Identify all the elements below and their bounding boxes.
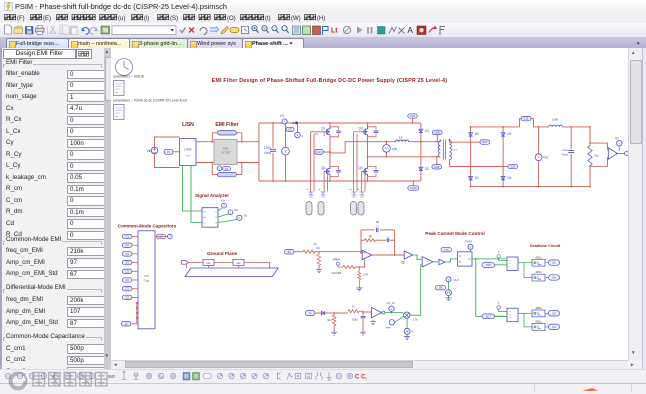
port VREF: [336, 262, 343, 267]
capsule CM3: [122, 252, 138, 256]
deadtime block 1: [495, 257, 519, 271]
capsule C8: [286, 127, 294, 131]
resistor Ro: [588, 126, 599, 188]
comparator CA: [363, 307, 385, 324]
wire summer out: [410, 265, 422, 316]
capsule CH3: [315, 149, 331, 154]
resistor Rref1: [343, 265, 365, 268]
svg-text:425u: 425u: [535, 255, 542, 259]
svg-text:Lm: Lm: [453, 148, 458, 152]
limiter U2: [402, 251, 413, 264]
wire rect bottom rail: [470, 186, 590, 188]
diode D6: [501, 167, 511, 187]
svg-text:D1: D1: [425, 129, 429, 133]
svg-text:CH7: CH7: [482, 140, 488, 144]
capsule CM bottom: [121, 322, 131, 326]
svg-text:/k: /k: [412, 330, 415, 334]
capsule CM2: [122, 243, 138, 247]
svg-text:Q4: Q4: [359, 166, 363, 170]
transistor Q4: [359, 166, 379, 176]
svg-text:Vbus: Vbus: [264, 151, 272, 155]
source sawtooth: [404, 318, 414, 339]
deadtime block 2: [507, 308, 518, 322]
svg-text:C14: C14: [510, 165, 515, 169]
svg-text:C16: C16: [524, 117, 529, 121]
svg-text:CA_LF: CA_LF: [387, 301, 396, 305]
svg-text:(E): (E): [43, 16, 51, 22]
svg-text:CH6: CH6: [434, 165, 440, 169]
capsule CM6: [122, 278, 138, 282]
svg-text:425u: 425u: [535, 320, 542, 324]
probe Vdc: [535, 126, 549, 188]
svg-text:VREF: VREF: [333, 258, 341, 262]
cm block bottom dots: [132, 302, 138, 324]
svg-text:Q2: Q2: [321, 166, 325, 170]
svg-text:CF: CF: [376, 220, 380, 224]
svg-text:+d: +d: [318, 189, 320, 191]
svg-text:cm: cm: [203, 212, 206, 214]
label Ground Plane: [207, 251, 238, 256]
svg-text:Cap: Cap: [144, 279, 150, 283]
svg-text:RF: RF: [369, 236, 373, 239]
svg-text:V: V: [448, 277, 450, 281]
capsule CM5: [122, 269, 138, 273]
buffer U4: [433, 259, 458, 265]
svg-text:425u: 425u: [535, 270, 542, 274]
gate drive symbol A1: [306, 189, 314, 197]
svg-text:R: R: [459, 260, 461, 264]
wire green LISN down 1: [183, 166, 203, 212]
capsule Cmp: [441, 247, 452, 252]
svg-text:C5: C5: [125, 269, 129, 273]
transistor Q3: [359, 127, 379, 137]
inductor Lout: [549, 118, 590, 127]
wire FF to lower deadtime: [476, 259, 506, 316]
svg-text:Ro: Ro: [595, 154, 599, 158]
svg-text:D4: D4: [475, 176, 479, 180]
svg-text:PA..: PA..: [115, 92, 120, 95]
node blue dot on top rail: [295, 122, 298, 125]
capsule CM8: [122, 295, 138, 299]
diode D1: [419, 123, 429, 142]
svg-text:910u: 910u: [352, 319, 358, 322]
wire D rail mid: [420, 141, 422, 166]
capacitor Cout: [562, 126, 575, 188]
wire leg B mid: [367, 137, 369, 167]
svg-text:In: In: [181, 141, 183, 143]
capsule clk: [435, 285, 446, 290]
svg-text:LISN: LISN: [182, 122, 194, 128]
parameter file label EMI.lst: [113, 75, 144, 79]
svg-text:CH3: CH3: [316, 150, 322, 154]
port arrow gnd: [182, 261, 204, 268]
svg-text:C: C: [355, 375, 360, 381]
svg-text:V: V: [470, 245, 472, 249]
svg-text:Vin: Vin: [147, 149, 152, 153]
parameter file icon 1: [114, 81, 125, 96]
svg-text:gd2: gd2: [237, 262, 242, 265]
wire LISN out top: [196, 141, 214, 143]
svg-text:Lt: Lt: [331, 28, 338, 35]
svg-text:gd1: gd1: [207, 262, 212, 265]
wire primary top: [421, 141, 440, 143]
wire leg A top: [329, 122, 331, 127]
svg-text:Common-Mode Capacitors: Common-Mode Capacitors: [118, 224, 177, 229]
svg-text:(W): (W): [291, 16, 301, 22]
wire EMI out bottom to bus: [237, 162, 259, 164]
capsule BOT: [482, 314, 507, 319]
svg-text:Ground Plane: Ground Plane: [207, 251, 238, 256]
svg-text:dm: dm: [203, 217, 206, 219]
svg-text:C7: C7: [125, 287, 129, 291]
svg-text:Vref=500: Vref=500: [332, 272, 342, 275]
wire secondary top: [450, 141, 472, 144]
parameter file icon 2: [114, 105, 125, 120]
svg-text:parameters – PSFB dc-dc (CISPR: parameters – PSFB dc-dc (CISPR-25 Level-…: [113, 99, 187, 103]
constant 1 upper: [497, 250, 507, 261]
wire green LISN down 2: [191, 166, 202, 223]
label 1.7k: [413, 318, 419, 322]
svg-text:Vdc: Vdc: [543, 156, 549, 160]
svg-text:Vo: Vo: [615, 137, 619, 141]
wire to compensator: [322, 251, 362, 253]
svg-text:1.7k: 1.7k: [413, 318, 419, 322]
label LISN: [182, 122, 194, 128]
source Vin: [147, 147, 158, 154]
wire bus top rail: [259, 122, 421, 124]
svg-text:CM: CM: [244, 215, 248, 218]
probe EMI: [218, 200, 226, 212]
resistor Ri: [334, 305, 363, 314]
svg-text:LISN: LISN: [184, 148, 192, 152]
svg-text:PA..: PA..: [115, 116, 120, 119]
diode D4: [469, 175, 479, 186]
label VREF: [332, 258, 342, 275]
delay 425u d: [524, 313, 560, 330]
wire Q3 gate down: [354, 132, 362, 192]
svg-text:A: A: [408, 26, 414, 35]
svg-text:C2: C2: [125, 243, 129, 247]
capsule cm right: [155, 234, 172, 239]
svg-text:V: V: [618, 141, 620, 145]
delay 425u b: [524, 263, 560, 281]
constant 1 lower: [497, 301, 507, 312]
op-amp U1: [362, 250, 372, 259]
svg-text:Peak Current Mode Control: Peak Current Mode Control: [425, 231, 484, 236]
svg-text:EMI Filter: EMI Filter: [215, 122, 238, 128]
svg-text:C3: C3: [125, 252, 129, 256]
gate source block QG4: [358, 202, 364, 216]
svg-text:A: A: [284, 120, 286, 124]
svg-text:TOP: TOP: [486, 263, 492, 267]
clock source: [446, 282, 452, 301]
probe Vo: [615, 137, 622, 151]
svg-text:Q4: Q4: [552, 276, 556, 280]
svg-text:2: 2: [365, 377, 367, 381]
svg-text:+d: +d: [349, 189, 351, 191]
svg-text:CISPR: CISPR: [185, 156, 192, 158]
wire sense bottom: [589, 157, 607, 167]
svg-text:Resr: Resr: [562, 153, 568, 157]
flip-flop block: [458, 252, 473, 266]
svg-text:+d: +d: [357, 189, 359, 191]
capsule above EMI filter: [218, 131, 237, 135]
svg-text:S: S: [459, 254, 461, 258]
delay 425u c: [518, 306, 560, 317]
capsule Vo out: [618, 151, 635, 155]
wire leg B bottom: [367, 176, 369, 182]
label Signal Analyzer: [195, 193, 229, 198]
wire EMI out top to bus: [237, 141, 259, 143]
svg-text:D5: D5: [507, 132, 511, 136]
wire top capsule loop: [211, 133, 242, 143]
resistor Rref2: [356, 266, 369, 291]
svg-text:BOT: BOT: [486, 314, 492, 318]
comparator U3: [413, 255, 433, 267]
label Peak Current Mode Control: [425, 231, 484, 236]
svg-text:CM: CM: [144, 274, 149, 278]
svg-text:EMI: EMI: [223, 147, 229, 151]
svg-text:120u: 120u: [264, 146, 271, 150]
resistor Rsen: [328, 312, 338, 335]
svg-text:DM: DM: [234, 209, 238, 212]
gate drive symbol B2: [357, 189, 365, 197]
svg-text:C1: C1: [125, 235, 129, 239]
svg-text:CLK: CLK: [454, 278, 460, 282]
svg-text:Cz: Cz: [376, 226, 379, 228]
wire bottom capsule loop: [211, 162, 242, 175]
transistor Q2: [321, 166, 341, 176]
probe at EMI filter bottom: [217, 166, 230, 171]
wire leg A mid: [329, 137, 331, 167]
wire opamp out: [372, 254, 404, 256]
label Common-Mode Capacitors: [118, 224, 177, 229]
wire FF out: [472, 258, 506, 260]
summer: [404, 312, 410, 318]
ground plane: [185, 268, 278, 277]
svg-text:D2: D2: [425, 167, 429, 171]
svg-text:EMI Filter Design of Phase-Shi: EMI Filter Design of Phase-Shifted Full-…: [212, 78, 447, 84]
gate drive symbol A2: [318, 189, 326, 197]
wire leg A bottom: [329, 176, 331, 182]
svg-text:parameters – EMI.lst: parameters – EMI.lst: [113, 75, 144, 79]
gate source block QG3: [351, 202, 357, 216]
wire rect left rail lower: [470, 142, 472, 175]
probe CLK: [446, 277, 459, 282]
svg-text:FILTER: FILTER: [221, 151, 230, 155]
ammeter V5 on top rail: [280, 114, 294, 124]
svg-text:(F): (F): [17, 16, 25, 22]
probe ramp: [386, 317, 404, 330]
svg-text:Ca: Ca: [387, 237, 391, 239]
wire phase B to transformer: [367, 156, 441, 158]
svg-text:(t): (t): [265, 16, 271, 22]
svg-text:V: V: [238, 216, 240, 220]
resistor block gd1: [203, 259, 233, 268]
wire sense top: [589, 142, 607, 150]
svg-text:C6: C6: [125, 278, 129, 282]
svg-text:Q3: Q3: [359, 127, 363, 131]
wire phase A jog: [329, 142, 395, 154]
svg-text:1: 1: [498, 250, 500, 254]
wire fb right: [394, 230, 396, 256]
label EMI Filter: [215, 122, 238, 128]
capsule CH4: [408, 114, 418, 124]
delay 425u a: [518, 255, 560, 266]
svg-text:Rg: Rg: [317, 246, 321, 250]
svg-text:C8: C8: [288, 127, 292, 131]
wire bus left rail: [258, 123, 260, 181]
wire rect top rail: [470, 126, 520, 128]
svg-text:(S): (S): [170, 16, 178, 22]
probe V on bus: [295, 123, 304, 138]
parameter file label PSFB: [113, 99, 187, 103]
svg-text:425u: 425u: [535, 306, 542, 310]
capsule TOP: [482, 263, 495, 268]
schematic title: [212, 78, 447, 84]
resistor Rb: [294, 242, 321, 253]
capsule CM7: [122, 287, 138, 291]
probe CA_LF: [387, 301, 396, 313]
diode D2: [419, 166, 429, 181]
cm caps block: [138, 231, 155, 329]
probe Vph: [383, 141, 398, 158]
svg-text:V: V: [391, 307, 393, 311]
svg-text:V: V: [297, 133, 299, 137]
wire opamp plus down: [364, 260, 366, 268]
capacitor Ci 910u: [352, 311, 366, 335]
wire secondary bottom: [450, 160, 505, 168]
wire LISN out bottom: [196, 162, 214, 164]
svg-text:V: V: [284, 148, 287, 153]
wire Q4 gate down: [362, 171, 365, 191]
signal analyzer block: [202, 208, 218, 228]
capsule below EMI filter: [218, 172, 237, 176]
clock icon: [116, 59, 133, 76]
svg-text:1.37k: 1.37k: [363, 273, 370, 276]
svg-text:cmp: cmp: [444, 249, 449, 252]
svg-text:a: a: [302, 134, 304, 138]
capacitor Cbus 120u: [264, 123, 276, 181]
probe PWM: [465, 240, 473, 252]
capsule CH10: [408, 180, 419, 190]
svg-text:C8: C8: [125, 295, 129, 299]
resistor Rg vertical: [315, 252, 322, 273]
sensor VSEN: [608, 148, 617, 159]
svg-text:Ls: Ls: [399, 136, 403, 140]
subcircuit LISN box: [180, 139, 197, 166]
svg-text:m=0: m=0: [386, 326, 391, 329]
diode D5: [501, 127, 511, 167]
probe V1: [164, 149, 180, 154]
svg-text:Cout: Cout: [562, 148, 569, 152]
diode Dcs: [315, 311, 334, 315]
subcircuit EMI Filter block: [214, 139, 237, 164]
capsule C14: [503, 164, 517, 168]
label Deadtime Circuit: [530, 244, 561, 248]
wire Vin bottom to LISN: [155, 154, 180, 167]
svg-text:Rs=: Rs=: [328, 319, 333, 322]
svg-text:(u): (u): [118, 16, 125, 22]
svg-text:Q: Q: [468, 257, 470, 261]
svg-text:D0: D0: [475, 132, 479, 136]
wire CA out: [385, 312, 403, 314]
wire bus bottom rail: [259, 180, 421, 182]
svg-text:(H): (H): [317, 16, 325, 22]
svg-text:CH4: CH4: [410, 114, 416, 118]
svg-text:V5: V5: [280, 114, 284, 118]
svg-text:Em: Em: [222, 200, 226, 203]
resistor block gd2: [233, 259, 270, 268]
svg-text:CH5: CH5: [435, 130, 441, 134]
capsule C16 jog: [520, 116, 549, 127]
svg-text:Q1: Q1: [321, 127, 325, 131]
svg-text:Q2: Q2: [552, 311, 556, 315]
capsule CS: [305, 311, 315, 316]
probe CM: [218, 215, 247, 223]
transformer T1: [438, 139, 457, 160]
svg-text:D6: D6: [507, 176, 511, 180]
wire fb left: [360, 230, 362, 254]
svg-text:+d: +d: [306, 189, 308, 191]
svg-text:Q3: Q3: [552, 325, 556, 329]
diode D0: [469, 127, 479, 142]
svg-text:V: V: [385, 146, 388, 151]
svg-text:Vph: Vph: [392, 147, 398, 151]
source Vbus: [272, 122, 289, 182]
capsule Cmg: [284, 249, 294, 254]
capsule CH6: [432, 156, 442, 169]
wire Vin top to LISN: [155, 137, 180, 147]
gate drive symbol B1: [349, 189, 357, 197]
svg-text:Deadtime Circuit: Deadtime Circuit: [530, 244, 561, 248]
svg-text:C4: C4: [125, 261, 129, 265]
capacitor Cf: [361, 220, 395, 232]
probe DM: [218, 209, 238, 217]
svg-text:(O): (O): [227, 16, 236, 22]
capsule CM4: [122, 260, 138, 264]
gate source block QG1: [306, 202, 312, 216]
svg-text:Signal Analyzer: Signal Analyzer: [195, 193, 229, 198]
transistor Q1: [321, 127, 341, 137]
svg-text:1: 1: [498, 301, 500, 305]
gate source block QG2: [318, 202, 324, 216]
svg-text:Lout: Lout: [552, 118, 558, 122]
inductor Ls: [395, 136, 421, 142]
capsule CH7: [471, 140, 490, 144]
svg-text:Ri: Ri: [352, 305, 355, 309]
capsule CH5: [432, 130, 442, 142]
svg-text:(l): (l): [144, 16, 149, 22]
svg-text:V1: V1: [167, 150, 171, 154]
svg-text:PWM: PWM: [465, 240, 473, 244]
svg-text:Q1: Q1: [552, 261, 556, 265]
wire leg B top: [367, 122, 369, 127]
resistor RF: [361, 236, 395, 243]
wire Q1 gate down: [311, 132, 325, 192]
capsule CM1: [122, 234, 138, 238]
wire Q2 gate down: [324, 171, 330, 191]
svg-text:CH10: CH10: [410, 186, 417, 190]
